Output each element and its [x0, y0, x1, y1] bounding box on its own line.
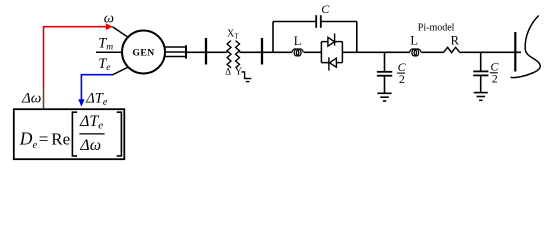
- bus bar 1: [205, 38, 207, 65]
- svg-text:Δω: Δω: [21, 90, 41, 106]
- wire bus2 to TCSC node: [262, 51, 292, 53]
- shunt capacitor 2 drop wire: [480, 52, 482, 71]
- wire transformer to bus2: [239, 51, 262, 53]
- wire red lower segment (dark): [43, 88, 45, 109]
- stub omega (upper-left of GEN): [113, 27, 129, 38]
- ground of Y winding: [241, 72, 251, 82]
- arrowhead red: [106, 23, 113, 30]
- TCSC capacitor branch riser left: [272, 22, 274, 53]
- stub Te (lower-left of GEN): [112, 67, 128, 75]
- svg-text:2: 2: [399, 72, 405, 86]
- svg-text:L: L: [410, 34, 418, 48]
- wire red feedback (omega): [44, 27, 108, 88]
- wire R to shunt node 2: [460, 51, 481, 53]
- stub Tm (left of GEN): [96, 51, 122, 53]
- ground 1: [377, 93, 391, 101]
- svg-text:Δω: Δω: [79, 137, 101, 154]
- shunt capacitor 2 lower wire: [480, 75, 482, 92]
- transformer XT winding primary: [227, 41, 231, 68]
- wire node2 to infinite bus: [481, 51, 521, 53]
- shunt capacitor 2 plates: [473, 71, 488, 75]
- svg-text:2: 2: [492, 71, 498, 85]
- shunt capacitor 1 drop wire: [384, 52, 386, 71]
- wire box to shunt node 1: [342, 51, 384, 53]
- equation De = Re[dTe/dw]: [19, 112, 122, 156]
- wire main: terminal to bus1: [186, 51, 206, 53]
- svg-text:ω: ω: [104, 11, 114, 27]
- label C/2 (2): [490, 60, 500, 86]
- svg-text:R: R: [451, 34, 460, 48]
- wire top branch left: [273, 21, 316, 23]
- wire bus1 to transformer: [206, 51, 227, 53]
- wire blue Te feedback: [81, 75, 112, 100]
- shunt capacitor 1 plates: [377, 72, 392, 76]
- machine terminal leads: [165, 47, 186, 57]
- wire node1 to L2: [385, 51, 410, 53]
- TCSC capacitor branch riser right: [356, 22, 358, 53]
- inductor L (TCSC): [292, 49, 303, 56]
- generator GEN: [122, 31, 165, 74]
- wire top branch right: [321, 21, 357, 23]
- svg-text:L: L: [294, 34, 302, 48]
- shunt capacitor 1 lower wire: [384, 76, 386, 94]
- svg-text:C: C: [321, 2, 330, 16]
- bus bar 3: [514, 32, 516, 72]
- bus bar 2: [261, 38, 263, 65]
- thyristor valve box: [321, 42, 342, 63]
- terminal bar: [185, 45, 187, 58]
- wire L2 to R: [421, 51, 443, 53]
- wire L to thyristor box: [304, 51, 322, 53]
- ground 2: [474, 93, 488, 101]
- arrowhead blue: [78, 99, 84, 107]
- equation box: [14, 109, 125, 159]
- thyristor bottom (right-to-left): [329, 57, 337, 70]
- inductor L (pi-model): [410, 49, 421, 56]
- transformer XT winding secondary: [236, 41, 240, 68]
- capacitor C plates: [316, 15, 321, 28]
- resistor R: [444, 47, 460, 52]
- thyristor top (left-to-right): [328, 34, 335, 47]
- svg-text:=: =: [39, 130, 49, 149]
- svg-text:Pi-model: Pi-model: [418, 22, 455, 33]
- svg-text:Re: Re: [51, 130, 70, 149]
- svg-text:Y: Y: [235, 67, 242, 78]
- svg-text:Δ: Δ: [225, 66, 231, 76]
- network squiggle: [511, 16, 541, 78]
- label C/2 (1): [397, 60, 407, 86]
- svg-text:GEN: GEN: [132, 48, 154, 59]
